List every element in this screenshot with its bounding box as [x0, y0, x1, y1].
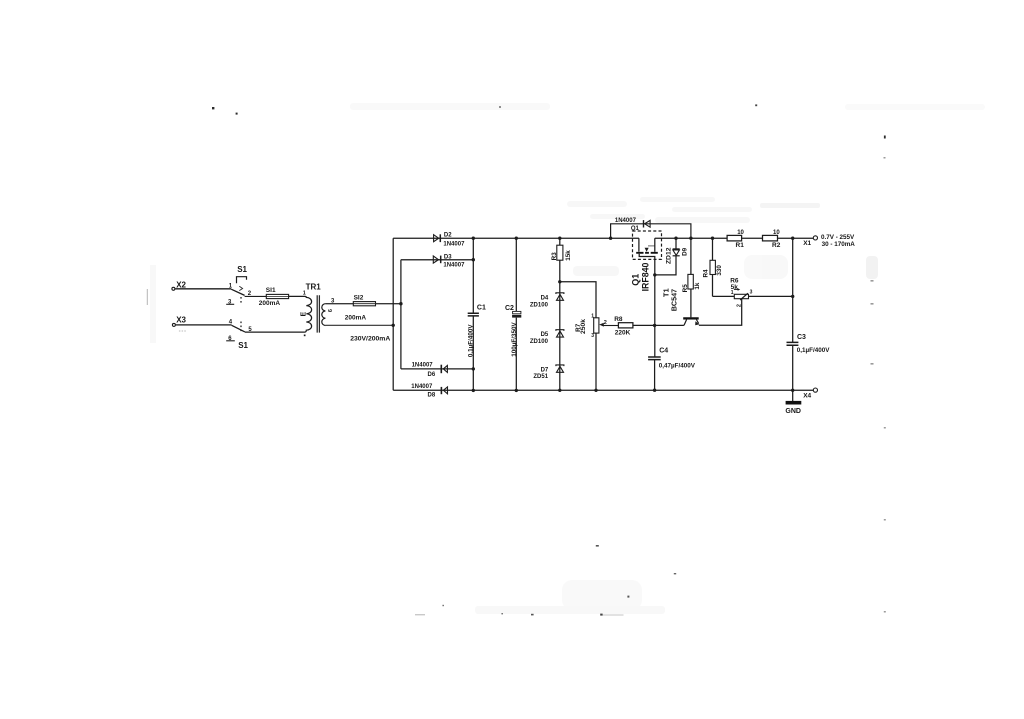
node rail C1: [472, 237, 475, 240]
svg-text:10: 10: [773, 230, 780, 236]
wire D8 row / bottom rail: [393, 389, 813, 391]
diode 1N4007 bypass: [644, 220, 651, 227]
svg-text:D3: D3: [444, 254, 452, 260]
svg-text:30 - 170mA: 30 - 170mA: [822, 241, 856, 248]
svg-text:D7: D7: [541, 368, 549, 374]
svg-text:1N4007: 1N4007: [443, 262, 465, 268]
mosfet Q1 drain lead: [654, 238, 656, 252]
svg-text:R3: R3: [551, 252, 558, 261]
svg-text:2: 2: [736, 304, 742, 307]
svg-text:200mA: 200mA: [345, 315, 367, 322]
svg-text:ZD100: ZD100: [530, 339, 549, 345]
wire T1 emitter: [699, 299, 742, 325]
svg-text:D4: D4: [541, 296, 549, 302]
svg-text:X3: X3: [176, 316, 186, 325]
node bottom zeners: [558, 389, 561, 392]
svg-text:IRF840: IRF840: [641, 262, 651, 291]
transformer core: [317, 295, 319, 332]
transformer TR1 secondary winding: [322, 304, 326, 326]
wire vertical AC1: [392, 238, 394, 390]
svg-text:220K: 220K: [615, 330, 631, 337]
mosfet Q1 gate lead: [638, 238, 640, 252]
terminal X4: [813, 388, 817, 392]
top rail east: [655, 237, 814, 239]
node C4 bottom: [653, 389, 656, 392]
zener D7: [556, 365, 564, 372]
svg-text:1N4007: 1N4007: [412, 363, 434, 369]
svg-text:1: 1: [303, 291, 306, 297]
resistor R2: [763, 235, 778, 241]
wire D2 row / top rail west: [393, 237, 639, 239]
resistor R3: [559, 238, 561, 390]
svg-text:3: 3: [591, 333, 594, 339]
node Q1 source / zener return: [653, 273, 656, 276]
svg-text:D2: D2: [444, 233, 452, 239]
svg-text:200mA: 200mA: [259, 300, 281, 307]
wire branch to R7: [560, 282, 596, 318]
node bottom C1: [472, 389, 475, 392]
svg-text:1: 1: [731, 290, 734, 296]
svg-text:ZD100: ZD100: [530, 303, 549, 309]
capacitor C3: [787, 342, 799, 345]
svg-text:230V/200mA: 230V/200mA: [350, 335, 390, 342]
zener D4: [556, 293, 564, 301]
mosfet Q1 arrow: [645, 248, 649, 252]
svg-text:100µF/350V: 100µF/350V: [511, 321, 518, 356]
svg-text:1: 1: [591, 313, 594, 319]
wire bypass loop: [611, 224, 691, 238]
terminal X3: [172, 323, 175, 326]
svg-text:C4: C4: [659, 348, 668, 355]
node secondary top: [399, 302, 402, 305]
svg-text:TR1: TR1: [306, 283, 322, 292]
wire secondary bottom: [325, 324, 393, 326]
mechanical link dashed: [240, 297, 242, 331]
svg-text:R8: R8: [614, 316, 623, 323]
svg-text:6: 6: [328, 309, 334, 312]
resistor R5: [690, 238, 692, 317]
resistor R4: [712, 238, 714, 296]
noise dots under X3: [179, 330, 186, 332]
ground: [792, 390, 794, 402]
transformer TR1 primary winding: [245, 296, 312, 332]
wire R8 to T1: [633, 324, 684, 326]
svg-text:D9: D9: [681, 247, 688, 256]
terminal X2: [172, 287, 175, 290]
svg-text:ZD12: ZD12: [665, 247, 672, 264]
svg-text:Q1: Q1: [631, 274, 641, 286]
potentiometer R6: [713, 295, 793, 297]
wire switch to fuse SI1: [245, 295, 267, 297]
svg-text:R1: R1: [736, 242, 745, 249]
wire zener link: [655, 256, 676, 275]
node bypass right: [689, 237, 692, 240]
svg-text:R5: R5: [682, 284, 689, 293]
wire vertical AC2: [400, 260, 402, 369]
switch S1 pole B lever: [232, 325, 245, 332]
svg-text:S1: S1: [237, 265, 247, 274]
mosfet Q1 channel: [636, 252, 658, 254]
node D6 C1: [472, 367, 475, 370]
svg-text:X4: X4: [803, 393, 811, 400]
svg-text:C3: C3: [797, 334, 806, 341]
svg-text:250k: 250k: [580, 319, 587, 334]
R7 wiper arrow: [603, 325, 619, 327]
wire D3 row: [401, 259, 473, 261]
svg-text:E: E: [300, 312, 307, 317]
svg-text:R2: R2: [772, 242, 781, 249]
svg-text:X1: X1: [803, 240, 811, 247]
node bypass left: [609, 237, 612, 240]
wire D6 row: [401, 368, 473, 370]
node bottom C2: [515, 389, 518, 392]
transistor T1: [683, 317, 699, 319]
R6 wiper arrow mark: [734, 289, 738, 291]
wire X3 to switch: [176, 324, 232, 326]
svg-text:S1: S1: [238, 341, 248, 350]
svg-text:1N4007: 1N4007: [411, 384, 433, 390]
svg-text:0,1µF/400V: 0,1µF/400V: [797, 347, 830, 354]
resistor R1: [727, 235, 742, 241]
diode D3: [433, 256, 440, 264]
svg-text:GND: GND: [785, 408, 801, 415]
node rail zener: [674, 237, 677, 240]
wire C1 vertical: [472, 238, 474, 390]
diode D8: [441, 387, 447, 394]
node output: [791, 237, 794, 240]
switch actuator symbol: [237, 277, 247, 284]
svg-text:0,47µF/400V: 0,47µF/400V: [659, 363, 696, 370]
node bottom output: [791, 389, 794, 392]
diode D2: [434, 234, 441, 242]
svg-text:BC547: BC547: [670, 289, 679, 311]
capacitor C2: [513, 311, 521, 313]
svg-text:D6: D6: [428, 372, 436, 378]
switch S1 pole A lever: [231, 289, 244, 295]
node R7 bottom rail: [594, 389, 597, 392]
wire source node: [654, 275, 656, 357]
wire output vertical: [792, 238, 794, 390]
node secondary bottom: [392, 324, 395, 327]
svg-text:ZD51: ZD51: [533, 374, 548, 380]
primary bottom pin mark: [304, 335, 306, 337]
svg-text:C1: C1: [477, 305, 486, 312]
svg-text:D8: D8: [428, 393, 436, 399]
svg-text:1N4007: 1N4007: [443, 241, 465, 247]
svg-text:330: 330: [716, 265, 723, 276]
node R6 output: [791, 295, 794, 298]
switch chevron mark: [239, 286, 242, 290]
svg-text:R4: R4: [703, 269, 710, 278]
diode D6: [441, 365, 447, 374]
zener ZD12 / diode D9: [675, 238, 677, 249]
svg-text:C2: C2: [505, 305, 514, 312]
mosfet Q1 source lead: [639, 254, 655, 275]
mosfet Q1 dashed box: [633, 231, 662, 259]
wire X2 to switch: [175, 288, 231, 290]
wire secondary top to SI2: [325, 303, 353, 305]
svg-text:0,1µF/400V: 0,1µF/400V: [467, 324, 474, 357]
node rail C2: [515, 237, 518, 240]
node R8 C4: [653, 324, 656, 327]
node rail R3: [558, 237, 561, 240]
node R3 zeners: [558, 280, 561, 283]
svg-text:D5: D5: [541, 332, 549, 338]
fuse SI2: [353, 302, 375, 306]
scan noise band: [150, 103, 985, 614]
mosfet Q1 body link: [648, 245, 655, 247]
capacitor C1: [468, 313, 479, 316]
svg-text:SI2: SI2: [354, 294, 364, 301]
wire C2 vertical: [515, 238, 517, 390]
wire SI2 to bridge: [376, 303, 401, 305]
terminal X1: [813, 236, 817, 240]
node D3 C1: [472, 258, 475, 261]
potentiometer R7: [594, 318, 599, 333]
capacitor C4: [648, 357, 661, 360]
svg-text:SI1: SI1: [266, 287, 276, 294]
node rail R4: [711, 237, 714, 240]
svg-text:1N4007: 1N4007: [615, 218, 637, 224]
svg-text:3: 3: [750, 289, 753, 295]
svg-text:15k: 15k: [565, 250, 572, 261]
svg-text:1k: 1k: [694, 282, 701, 290]
fuse SI1: [266, 294, 288, 298]
zener D5: [556, 330, 564, 337]
resistor R8: [618, 323, 633, 328]
svg-text:10: 10: [737, 230, 744, 236]
